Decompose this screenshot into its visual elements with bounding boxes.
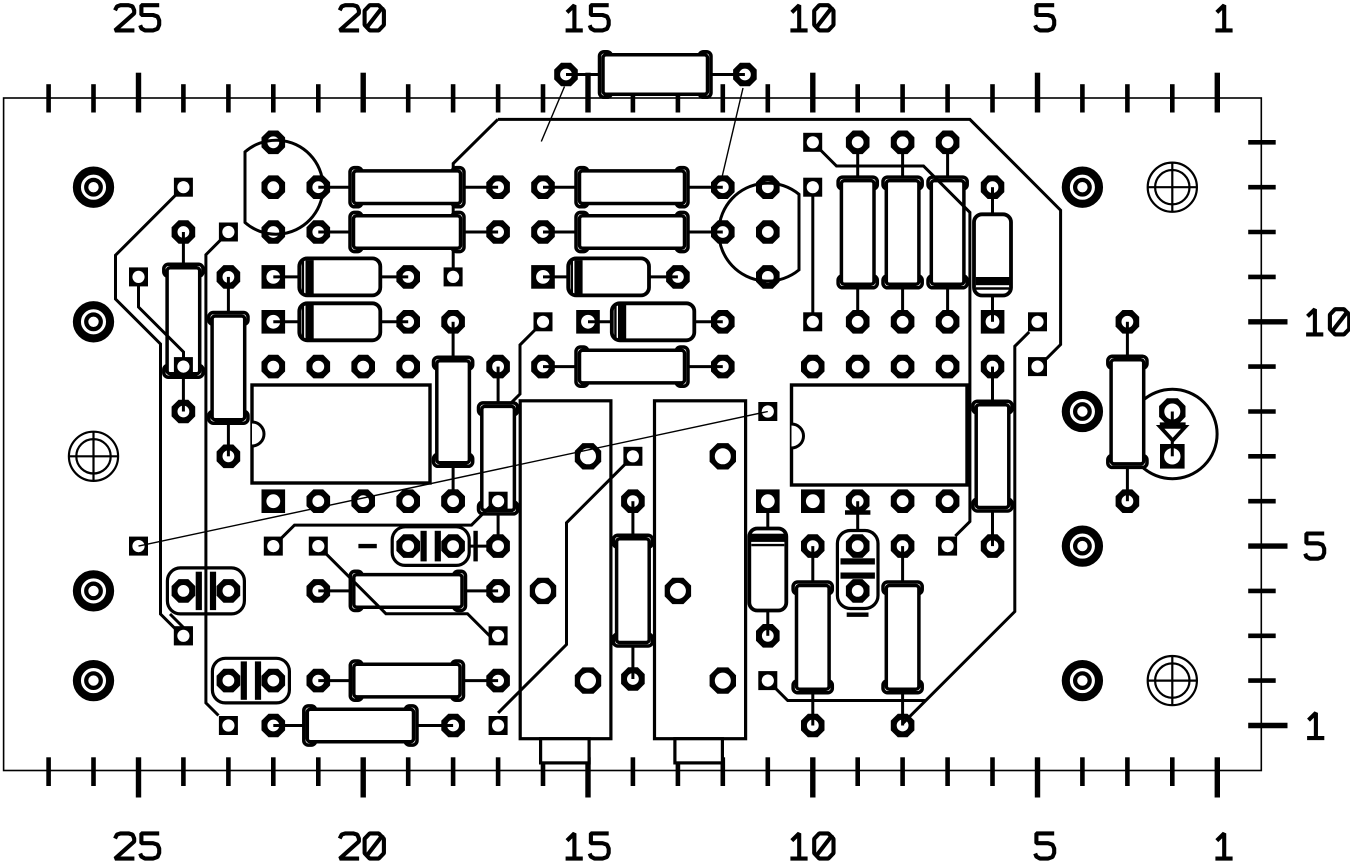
wire net2 branch (pad col11 row2 to diagonal) (758, 671, 925, 700)
resistor R7 (col23 vertical) (209, 265, 248, 468)
resistor R5 (row12 middle) (531, 212, 734, 251)
resistor R4 (row13 middle) (531, 168, 734, 207)
mounting hole H3 (77, 574, 110, 607)
resistor R3 (row12 left) (307, 212, 510, 251)
wire net6 (pad col25 row11 to pad col24 row9) (129, 267, 193, 376)
ruler ticks right (1248, 142, 1287, 725)
mounting hole H5 (1066, 171, 1099, 204)
wire from pad col16 row10 diving under R8 cap (505, 329, 536, 410)
resistor R9 (col17 vertical) (479, 355, 518, 546)
wire from capacitor C2 to pad col24 row3 (170, 614, 193, 645)
diode D4 (row10 middle) (576, 303, 734, 340)
diode D5 (col6 vertical) (974, 175, 1011, 333)
capacitor C4 with polarity marks (358, 527, 510, 566)
resistor R12 (col8 vertical top) (883, 131, 922, 334)
ruler ticks top (49, 73, 1218, 113)
screw hole S1 (69, 432, 118, 481)
resistor R11 (col9 vertical top) (838, 131, 877, 334)
resistor R13 (col7 vertical top) (928, 131, 967, 334)
LED D7 (1128, 389, 1217, 478)
wire net11 pad col16 row10 (534, 312, 553, 331)
wire net10 (pad col21 row5 to pad col17 row3) (309, 537, 508, 646)
resistor R8 (col18 vertical) (434, 310, 473, 513)
ruler numbers top (115, 5, 1233, 30)
resistor R20 (row2) (307, 661, 510, 700)
diode D2 (row10 left) (262, 303, 421, 340)
mounting hole H7 (1066, 530, 1099, 563)
diode D1 (row11 left) (262, 258, 421, 295)
wire net3 (pad col10 row14 to pad col7 row5) (803, 133, 970, 556)
airwire leader from R1 right pad to pad col12 row13 (721, 88, 744, 184)
wire net4 (pad col10 row13 to pad col10 row10) (803, 178, 822, 332)
transistor Q2 (719, 175, 799, 288)
airwire (pad col25 row5 to pad col11 row8) (129, 402, 777, 556)
ruler numbers right (1305, 309, 1349, 738)
resistor R18 (row9 middle) (531, 347, 734, 386)
screw hole S3 (1148, 656, 1197, 705)
wire net8 (pad col14 row7 to pad col17 row1) (489, 447, 643, 735)
op-amp U1 (DIP left) (252, 355, 465, 513)
resistor R21 (row1) (262, 706, 465, 745)
relay K2 (655, 401, 746, 763)
relay K1 (520, 401, 611, 763)
mounting hole H2 (77, 305, 110, 338)
diode D6 (col11 vertical) (749, 501, 786, 647)
wire net VCC segment under resistors (left vertical of top bus) (453, 119, 498, 268)
capacitor C2 (167, 568, 244, 614)
resistor R1 (loose part above board) (554, 52, 757, 98)
airwire leader from R1 left pad (541, 87, 564, 142)
mounting hole H1 (77, 171, 110, 204)
resistor R2 (row13 left) (307, 168, 510, 207)
resistor R17 (col3 vertical) (1108, 310, 1147, 513)
resistor R14 (col6 vertical) (973, 355, 1012, 558)
resistor R15 (col10 vertical bottom) (793, 534, 832, 737)
wire net7 (pad col23 row12 to pad col23 row1) (206, 223, 238, 736)
board outline (4, 98, 1262, 771)
wire net1 top bus (pad col18 row11 to pad col5 row9) (444, 119, 1061, 376)
resistor R19 (row4) (307, 571, 510, 610)
capacitor C5 with polarity marks (837, 501, 878, 615)
mounting hole H6 (1066, 395, 1099, 428)
wire net2 (pad col5 row10 down to pad col8 row1) (903, 312, 1047, 723)
resistor R10 (col14 vertical) (613, 489, 652, 690)
op-amp U2 (DIP right) (756, 355, 967, 513)
diode D3 (row11 middle) (531, 258, 690, 295)
transistor Q1 (245, 131, 323, 244)
mounting hole H4 (77, 664, 110, 697)
wire net5 (pad col24 row13 to pad col24 row3) (116, 178, 193, 646)
ruler ticks bottom (49, 757, 1218, 797)
resistor R16 (col8 vertical bottom) (883, 534, 922, 737)
mounting hole H8 (1066, 664, 1099, 697)
capacitor C3 (212, 658, 289, 703)
ruler numbers bottom (115, 833, 1233, 858)
screw hole S2 (1148, 163, 1197, 212)
resistor R6 (col24 vertical) (164, 220, 203, 423)
wire net9 (pad col22 row5 to pad col17 row6) (264, 492, 508, 556)
